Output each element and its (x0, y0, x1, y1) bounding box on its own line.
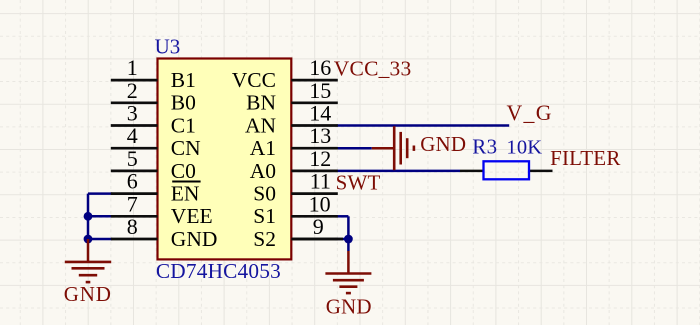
wire left vertical bus to GND (87, 194, 90, 239)
svg-text:B0: B0 (171, 91, 196, 115)
svg-text:EN: EN (171, 182, 200, 206)
pin 7 (VEE) left (111, 215, 158, 218)
svg-text:2: 2 (127, 78, 138, 103)
svg-text:11: 11 (310, 169, 331, 194)
ground symbol bottom-left (65, 239, 111, 282)
pin 11 (S0) right (291, 192, 338, 195)
pin 12 (A0) right (291, 170, 338, 173)
svg-text:CD74HC4053: CD74HC4053 (156, 259, 281, 283)
svg-text:S1: S1 (253, 204, 276, 228)
wire pin13 A1 to GND power port (337, 147, 372, 150)
svg-text:7: 7 (127, 191, 138, 216)
svg-text:5: 5 (127, 146, 138, 171)
svg-text:10: 10 (309, 191, 331, 216)
svg-text:GND: GND (420, 132, 466, 156)
wire pin9 S2 stub (335, 238, 349, 241)
svg-text:GND: GND (171, 227, 218, 251)
svg-text:4: 4 (127, 123, 138, 148)
svg-text:VEE: VEE (171, 204, 213, 228)
IC U3 body CD74HC4053 (158, 59, 292, 260)
svg-text:GND: GND (64, 282, 112, 306)
pin 10 (S1) right (291, 215, 338, 218)
svg-text:6: 6 (127, 169, 138, 194)
pin 13 (A1) right (291, 147, 338, 150)
wire pin14 AN to V_G label (337, 124, 509, 127)
svg-text:V_G: V_G (507, 101, 553, 125)
svg-text:VCC: VCC (232, 68, 276, 92)
svg-text:A0: A0 (250, 159, 276, 183)
svg-text:CN: CN (171, 136, 201, 160)
svg-text:C0: C0 (171, 159, 196, 183)
svg-text:1: 1 (127, 55, 138, 80)
resistor R3 10K (460, 161, 553, 179)
junction pin8/bus (84, 235, 93, 244)
svg-text:10K: 10K (506, 136, 542, 158)
wire pin10 S1 stub (337, 215, 349, 218)
wire pin8 GND stub (88, 238, 112, 241)
svg-text:GND: GND (326, 295, 372, 319)
svg-text:FILTER: FILTER (550, 146, 620, 170)
pin 14 (AN) right (291, 124, 338, 127)
pin 6 (EN) left (111, 192, 158, 195)
svg-text:BN: BN (246, 91, 276, 115)
wire pin7 VEE stub (88, 215, 112, 218)
svg-text:16: 16 (309, 55, 331, 80)
svg-text:13: 13 (309, 123, 331, 148)
svg-text:SWT: SWT (336, 170, 381, 194)
pin 8 (GND) left (111, 238, 158, 241)
wire pin12 A0 to resistor R3 (337, 170, 460, 173)
pin 9 line extension (291, 238, 343, 241)
svg-text:S0: S0 (253, 182, 276, 206)
svg-text:8: 8 (127, 214, 138, 239)
junction pin7/bus (84, 212, 93, 221)
pin 4 (CN) left (111, 147, 158, 150)
wire pin6 EN stub (88, 192, 112, 195)
svg-text:AN: AN (245, 113, 277, 137)
svg-text:15: 15 (309, 78, 331, 103)
junction pin9/middle bus (344, 235, 353, 244)
svg-text:3: 3 (127, 101, 138, 126)
svg-text:VCC_33: VCC_33 (334, 56, 412, 80)
svg-text:14: 14 (309, 101, 331, 126)
wire middle vertical down to GND (347, 216, 350, 251)
pin 1 (B1) left (111, 79, 158, 82)
svg-text:S2: S2 (253, 227, 276, 251)
pin 16 (VCC) right (291, 79, 338, 82)
pin 9 (S2) right (291, 238, 338, 241)
EN overline (active low) (172, 180, 200, 182)
ground symbol bottom-middle (325, 251, 371, 293)
svg-text:12: 12 (309, 146, 331, 171)
svg-text:R3: R3 (472, 134, 497, 158)
svg-text:U3: U3 (155, 34, 181, 58)
svg-text:A1: A1 (250, 136, 276, 160)
svg-text:9: 9 (313, 214, 324, 239)
pin 5 (C0) left (111, 170, 158, 173)
svg-text:C1: C1 (171, 113, 196, 137)
pin 15 (BN) right (291, 101, 338, 104)
ground power port at pin13 (rotated) (372, 126, 414, 170)
svg-text:B1: B1 (171, 68, 196, 92)
pin 3 (C1) left (111, 124, 158, 127)
pin 2 (B0) left (111, 101, 158, 104)
